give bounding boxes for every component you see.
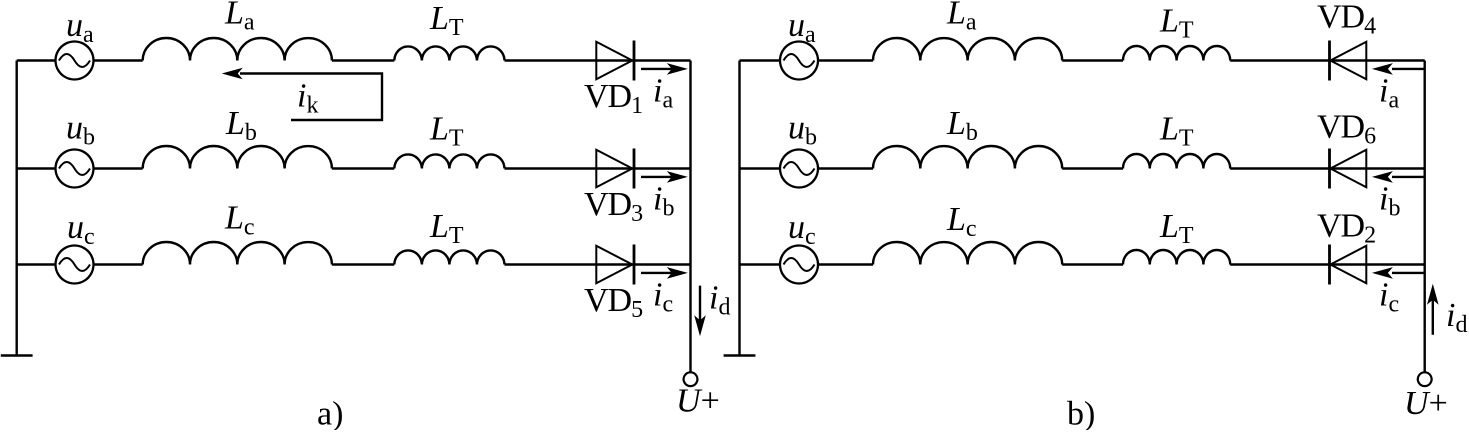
svg-text:a): a)	[317, 396, 343, 431]
svg-text:U+: U+	[676, 383, 720, 420]
svg-text:b): b)	[1067, 396, 1095, 431]
svg-text:U+: U+	[1404, 385, 1448, 422]
